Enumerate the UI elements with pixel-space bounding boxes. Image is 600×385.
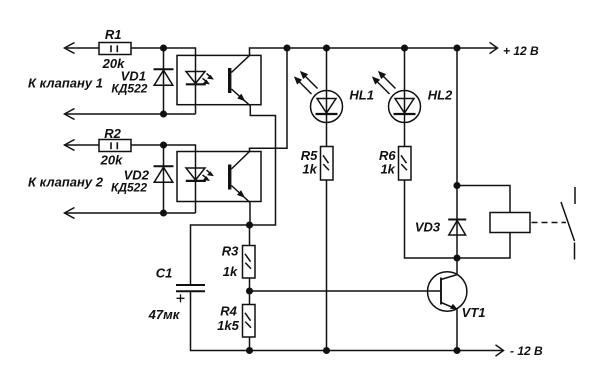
op-amp U2 optocoupler box — [177, 152, 261, 202]
node junction collector2 rail — [284, 45, 290, 51]
svg-text:1k: 1k — [302, 162, 317, 177]
node R5 rail — [324, 348, 330, 354]
diode VD3 — [456, 186, 458, 259]
svg-text:C1: C1 — [156, 266, 173, 281]
arrow +12 — [490, 42, 498, 53]
HL1 emission arrows — [297, 79, 312, 94]
node VD3 top junction — [454, 183, 460, 189]
transistor VT1 — [456, 258, 458, 275]
svg-text:20k: 20k — [100, 153, 123, 168]
svg-text:HL2: HL2 — [428, 88, 453, 103]
wire to relay top — [457, 186, 510, 213]
svg-text:К клапану 2: К клапану 2 — [28, 175, 104, 190]
svg-text:1k5: 1k5 — [217, 318, 239, 333]
light arrows U2 — [207, 170, 212, 174]
wire R5 to -12 rail — [326, 180, 328, 351]
node junction R3/R4/base — [249, 278, 251, 305]
svg-text:R3: R3 — [222, 244, 239, 259]
svg-text:R1: R1 — [105, 27, 122, 42]
phototransistor of U2 — [228, 165, 231, 190]
op-amp U1 optocoupler box — [177, 55, 261, 104]
svg-text:HL1: HL1 — [349, 88, 374, 103]
wire input1 top left segment — [65, 47, 100, 49]
resistor R2 — [99, 140, 131, 152]
resistor R1 — [99, 43, 131, 55]
light arrows U1 — [207, 74, 212, 78]
resistor R4 — [243, 305, 256, 338]
svg-text:КД522: КД522 — [111, 82, 147, 96]
wire R2 to LED2 anode — [131, 145, 196, 213]
svg-text:VT1: VT1 — [462, 305, 486, 320]
wire R6 to collector node — [405, 180, 458, 258]
arrow -12 — [496, 345, 504, 356]
relay K1 coil — [490, 213, 530, 233]
node junction VD2 bottom — [161, 210, 167, 216]
svg-text:+ 12 В: + 12 В — [503, 44, 539, 58]
wire U1 collector to +12 rail — [250, 48, 498, 55]
svg-text:КД522: КД522 — [111, 181, 147, 195]
capacitor C1 — [176, 284, 205, 286]
wire relay bottom to collector node — [457, 233, 510, 259]
arrow input1 bottom — [65, 109, 75, 120]
node relay branch rail — [454, 45, 460, 51]
svg-text:- 12 В: - 12 В — [510, 344, 543, 358]
node A junction R1/VD1 — [161, 45, 167, 51]
node HL1 rail — [324, 45, 330, 51]
node HL2 rail — [402, 45, 408, 51]
wire base R3R4 to VT1 — [250, 290, 442, 292]
LED of U1 — [186, 72, 205, 84]
wire input2 top left segment — [65, 144, 100, 146]
resistor R6 — [399, 147, 412, 181]
svg-text:К клапану 1: К клапану 1 — [28, 76, 103, 91]
wire input1 bottom — [65, 113, 196, 115]
resistor R5 — [321, 147, 334, 181]
svg-text:1k: 1k — [380, 162, 395, 177]
wire U2 collector to +12 rail — [250, 48, 288, 152]
wire C1 to -12 rail — [191, 291, 504, 350]
node VT1 emitter rail — [454, 348, 460, 354]
node junction R4 rail — [247, 348, 253, 354]
LED of U2 — [186, 168, 205, 180]
relay contact switch — [574, 187, 576, 204]
wire U1 emitter to node — [250, 106, 276, 225]
phototransistor of U1 — [228, 68, 231, 93]
wire rail to VD3 top — [456, 48, 458, 186]
node collector junction — [454, 255, 460, 261]
arrow input2 top — [65, 140, 75, 151]
wire junction to C1 — [191, 225, 250, 285]
svg-text:VD3: VD3 — [415, 220, 441, 235]
node junction VD1 bottom — [161, 111, 167, 117]
node junction R2/VD2 — [161, 142, 167, 148]
relay contact dashed link — [532, 222, 567, 224]
wire R1 to LED1 anode — [131, 48, 196, 114]
svg-text:R4: R4 — [220, 304, 237, 319]
wire input2 bottom — [65, 212, 196, 214]
diode VD1 — [163, 48, 165, 114]
diode VD2 — [163, 145, 165, 213]
HL2 emission arrows — [375, 79, 390, 94]
node emitters/C1/R3 junction — [247, 222, 253, 228]
wire U2 emitter to node — [249, 203, 251, 226]
svg-text:R2: R2 — [104, 126, 121, 141]
LED HL2 — [404, 48, 406, 147]
resistor R3 — [249, 225, 251, 246]
svg-text:47мк: 47мк — [148, 307, 181, 322]
svg-text:1k: 1k — [223, 264, 238, 279]
LED HL1 — [326, 48, 328, 147]
arrow input2 bottom — [65, 208, 75, 219]
arrow input1 top — [65, 43, 75, 54]
